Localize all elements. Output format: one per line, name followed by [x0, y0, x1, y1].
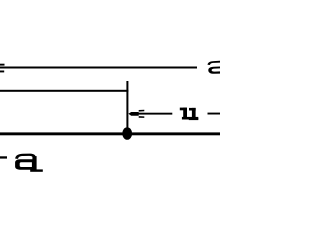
wire: middle horizontal line (top of well step): [0, 90, 128, 92]
label a (top right, clipped at right edge): [208, 61, 222, 74]
minus sign (clipped at left edge): [0, 156, 7, 158]
wire: vertical line at x=127: [126, 81, 128, 134]
wire: u arrow shaft left segment: [131, 113, 172, 115]
node: filled junction dot at x=127 on baseline: [122, 127, 132, 140]
glyph a: [15, 154, 35, 159]
u dimension arrow (chunky head pointing left): [128, 112, 138, 116]
arrowhead left (clipped) on a dimension line: [0, 64, 5, 66]
wire: bottom thick baseline: [0, 132, 220, 135]
label u: [180, 108, 199, 121]
wire: u dimension line right segment: [208, 113, 221, 115]
label -a (bottom left): [0, 154, 43, 172]
wire: top dimension line for a: [0, 67, 197, 69]
